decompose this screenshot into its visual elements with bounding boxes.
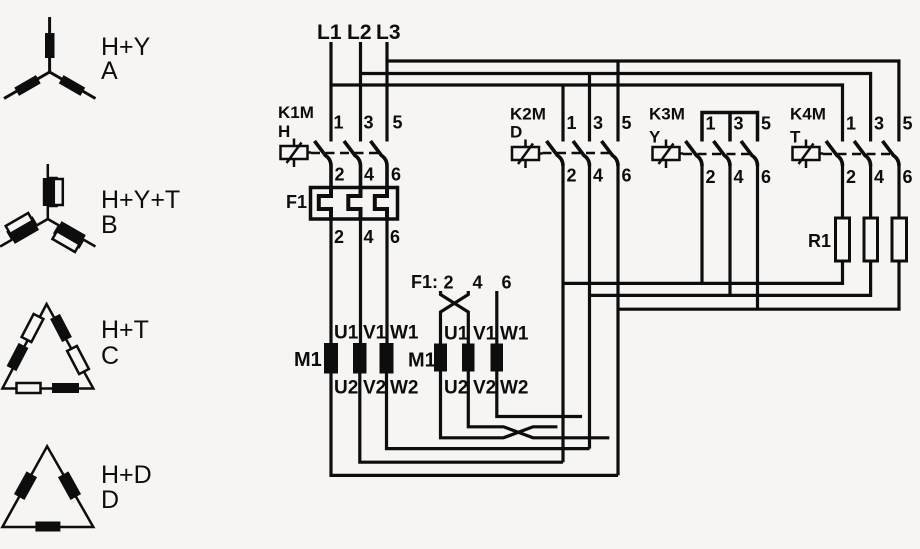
winding bar A lower-right — [59, 75, 85, 96]
overload relay F1 — [286, 188, 400, 248]
svg-text:T: T — [790, 128, 801, 147]
svg-text:2: 2 — [334, 227, 344, 247]
contact K2M pole 3-4 — [573, 141, 590, 166]
wire K2M pin2 down — [561, 166, 564, 462]
winding bar right side C — [50, 314, 72, 342]
svg-text:K1M: K1M — [278, 103, 314, 122]
wire K3M pin6 down — [756, 166, 759, 309]
wire K3M pin4 down — [728, 166, 731, 295]
svg-text:1: 1 — [706, 114, 716, 134]
wire L3 down to K1M pole 5 — [385, 42, 388, 142]
svg-text:U1: U1 — [334, 323, 359, 344]
svg-text:6: 6 — [761, 167, 771, 187]
dashed mechanical link K1M — [311, 152, 382, 155]
wire R1b to K2M pin4 branch — [590, 261, 871, 295]
svg-text:V1: V1 — [363, 323, 387, 344]
contact K3M pole 3-4 — [714, 141, 731, 166]
svg-text:W2: W2 — [390, 378, 419, 399]
svg-text:M1: M1 — [294, 349, 322, 371]
winding bar V set 2 — [462, 344, 475, 372]
wire R1a to K2M pin2 branch — [563, 261, 843, 283]
winding symbol A: star H+Y — [4, 17, 151, 99]
svg-text:4: 4 — [734, 167, 744, 187]
wire K4M pin4 to R1b — [869, 166, 872, 218]
svg-text:6: 6 — [622, 166, 632, 186]
svg-text:5: 5 — [622, 113, 632, 133]
svg-text:2: 2 — [846, 167, 856, 187]
winding bar bottom C — [52, 383, 79, 393]
winding symbol C: delta with windings and resistors H+T — [2, 304, 149, 393]
svg-text:6: 6 — [502, 273, 512, 293]
motor M1 winding set 2 — [408, 324, 529, 399]
svg-text:V1: V1 — [473, 324, 497, 345]
branch up: winding bar + parallel resistor — [43, 164, 63, 219]
coil K4M — [793, 140, 824, 169]
branch lower-left: winding bar + parallel resistor — [0, 206, 50, 251]
svg-text:B: B — [101, 211, 118, 239]
svg-text:3: 3 — [593, 113, 603, 133]
wire triangle D — [2, 446, 93, 527]
winding bar V — [353, 343, 367, 374]
svg-text:L1: L1 — [317, 21, 342, 44]
winding bar left side C — [7, 343, 29, 371]
wire R1c to K2M pin6 branch — [618, 261, 899, 309]
dashed mechanical link K4M — [823, 153, 894, 156]
winding bar right side D — [58, 471, 81, 500]
svg-text:V2: V2 — [473, 378, 496, 399]
wire L1 down to K1M pole 1 — [329, 42, 332, 142]
svg-text:W2: W2 — [500, 378, 529, 399]
branch lower-right: winding bar + parallel resistor — [40, 215, 98, 260]
svg-text:3: 3 — [734, 114, 744, 134]
svg-text:L3: L3 — [376, 21, 401, 44]
wire star A branch lower-left — [4, 72, 50, 99]
svg-text:H+T: H+T — [101, 316, 149, 344]
svg-text:3: 3 — [364, 113, 374, 133]
wire bus from L1 to K4M pole 1 — [331, 85, 843, 142]
winding bar left side D — [14, 471, 37, 500]
wire motor2 V2 crossing down — [468, 372, 609, 438]
coil K1M — [281, 139, 312, 168]
svg-text:K4M: K4M — [790, 105, 826, 124]
star point bar across K3M pins 1 3 5 — [702, 113, 758, 142]
wire K4M pin6 to R1c — [897, 166, 900, 218]
wire K2M pin4 down — [588, 166, 591, 449]
resistor R1a — [836, 218, 850, 261]
svg-text:A: A — [101, 57, 118, 85]
wire motor2 W2 right — [497, 372, 582, 417]
dashed mechanical link K3M — [683, 153, 753, 156]
coil K2M — [512, 140, 543, 169]
svg-text:K2M: K2M — [510, 105, 546, 124]
svg-text:R1: R1 — [808, 231, 831, 251]
winding symbol B: star with parallel resistors H+Y+T — [0, 164, 180, 259]
motor M1 winding set 1 — [294, 323, 419, 399]
svg-text:F1: F1 — [286, 192, 307, 212]
F1 box — [311, 188, 398, 220]
contact K3M pole 5-6 — [741, 141, 758, 166]
svg-text:1: 1 — [334, 113, 344, 133]
svg-text:2: 2 — [567, 166, 577, 186]
contact K4M pole 5-6 — [883, 141, 900, 166]
contactor K4M — [790, 105, 913, 188]
winding bar U set 2 — [434, 344, 447, 372]
wire F1 pole3 to motor1 W1 — [385, 219, 388, 343]
svg-text:2: 2 — [706, 167, 716, 187]
wire bus from L3 to K4M pole 5 — [387, 61, 899, 142]
svg-text:V2: V2 — [363, 378, 386, 399]
contactor K1M — [278, 103, 403, 188]
wire drop bus to K2M pole 3 — [588, 74, 591, 142]
svg-text:2: 2 — [335, 165, 345, 185]
heater element pole 1 — [319, 188, 331, 219]
wire motor1 U2 to K2M pin6 — [331, 374, 618, 476]
wire drop bus to K2M pole 5 — [616, 61, 619, 142]
svg-text:6: 6 — [903, 167, 913, 187]
wire K3M pin2 down — [700, 166, 703, 283]
resistor R1b — [864, 218, 878, 261]
wire star A branch up — [48, 17, 51, 72]
svg-text:F1:: F1: — [411, 272, 438, 292]
svg-text:D: D — [510, 123, 522, 142]
contact K3M pole 1-2 — [686, 141, 703, 166]
wire motor1 W2 to K2M pin4 — [387, 374, 590, 449]
winding bar bottom D — [35, 522, 60, 532]
contact K2M pole 1-2 — [547, 141, 564, 166]
wire motor2 U2 crossing up — [441, 372, 558, 438]
heater element pole 2 — [348, 188, 360, 219]
svg-text:M1: M1 — [408, 350, 436, 372]
wire K4M pin2 to R1a — [841, 166, 844, 218]
svg-text:U2: U2 — [334, 378, 358, 399]
svg-text:6: 6 — [390, 227, 400, 247]
svg-text:5: 5 — [761, 114, 771, 134]
contact K2M pole 5-6 — [602, 141, 619, 166]
resistor open left side C — [22, 314, 44, 342]
contactor K3M — [649, 105, 771, 188]
wire from F1:6 to W1 set 2 — [495, 291, 498, 344]
winding bar W — [380, 343, 394, 374]
contact K1M pole 3-4 — [344, 141, 361, 188]
contactor K2M — [510, 105, 632, 186]
wire motor1 V2 to K2M pin2 — [360, 374, 563, 463]
wire bus from L2 to K4M pole 3 — [361, 74, 871, 142]
heater element pole 3 — [375, 188, 387, 219]
winding bar W set 2 — [491, 344, 504, 372]
svg-text:5: 5 — [903, 114, 913, 134]
svg-text:D: D — [101, 486, 119, 514]
svg-text:2: 2 — [444, 273, 454, 293]
svg-text:L2: L2 — [347, 21, 372, 44]
contact K4M pole 3-4 — [854, 141, 871, 166]
svg-text:H+D: H+D — [101, 461, 152, 489]
svg-text:K3M: K3M — [649, 105, 685, 124]
wire F1 pole1 to motor1 U1 — [329, 219, 332, 343]
svg-text:4: 4 — [364, 227, 374, 247]
svg-text:U1: U1 — [444, 324, 469, 345]
wire F1 pole2 to motor1 V1 — [359, 219, 362, 343]
svg-text:H: H — [278, 122, 290, 141]
svg-text:3: 3 — [874, 114, 884, 134]
winding bar A lower-left — [14, 75, 40, 96]
contact K1M pole 5-6 — [371, 141, 388, 188]
wire star A branch lower-right — [50, 72, 96, 99]
svg-text:W1: W1 — [500, 324, 529, 345]
wire L2 down to K1M pole 3 — [359, 42, 362, 142]
svg-text:4: 4 — [473, 273, 483, 293]
svg-text:Y: Y — [649, 128, 661, 147]
svg-text:4: 4 — [874, 167, 884, 187]
winding bar U — [324, 343, 338, 374]
winding symbol D: delta H+D — [2, 446, 151, 531]
wire K2M pin6 down — [616, 166, 619, 475]
svg-text:C: C — [101, 342, 119, 370]
svg-text:1: 1 — [846, 114, 856, 134]
svg-text:6: 6 — [391, 165, 401, 185]
svg-text:4: 4 — [364, 165, 374, 185]
resistor open right side C — [67, 346, 89, 374]
winding bar A up — [45, 33, 55, 58]
svg-text:U2: U2 — [444, 378, 468, 399]
wire triangle C — [2, 304, 93, 389]
contact K1M pole 1-2 — [315, 141, 332, 188]
svg-text:5: 5 — [393, 113, 403, 133]
wire drop bus to K2M pole 1 — [561, 85, 564, 142]
resistor R1c — [892, 218, 907, 261]
contact K4M pole 1-2 — [826, 141, 843, 166]
svg-text:1: 1 — [567, 113, 577, 133]
dashed mechanical link K2M — [543, 152, 614, 155]
wire from F1:4 crossing to U1 set 2 — [441, 291, 469, 344]
wire from F1:2 crossing to V1 set 2 — [441, 291, 469, 344]
resistor open bottom C — [17, 383, 41, 393]
svg-text:W1: W1 — [390, 323, 419, 344]
svg-text:H+Y+T: H+Y+T — [101, 186, 180, 214]
svg-text:4: 4 — [593, 166, 603, 186]
coil K3M — [653, 140, 684, 169]
